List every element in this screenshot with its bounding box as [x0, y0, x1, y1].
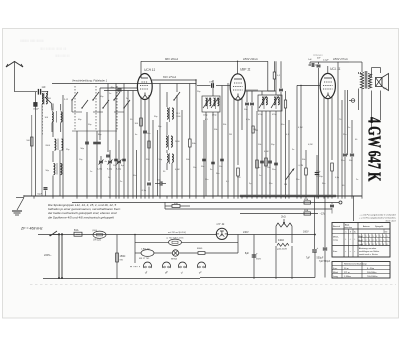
wire strip right connections: [276, 235, 292, 280]
switch mains: [49, 231, 57, 236]
svg-text:1nF: 1nF: [42, 86, 47, 89]
wire top rail 60V: [141, 61, 238, 62]
svg-text:150Ω: 150Ω: [120, 255, 126, 258]
wire top rail 180V: [238, 60, 268, 62]
svg-text:UBF 11: UBF 11: [240, 68, 251, 72]
svg-text:Spiegelfr.: Spiegelfr.: [375, 225, 384, 228]
wire switch bank link: [72, 112, 124, 131]
wire after antenna cap: [42, 91, 49, 92]
resistor 4400 strip: [277, 240, 289, 251]
wire x345 x352: [345, 90, 352, 196]
svg-text:30k: 30k: [223, 124, 226, 126]
svg-text:5n: 5n: [108, 177, 110, 179]
wire x53 to chassis: [45, 191, 47, 197]
svg-text:10n: 10n: [267, 167, 270, 169]
svg-text:Kurz: Kurz: [333, 267, 337, 270]
svg-text:zurück nach u. Rasten: zurück nach u. Rasten: [358, 253, 378, 256]
svg-text:MF 17 741: MF 17 741: [139, 258, 150, 260]
coil L2 pair: [45, 111, 62, 123]
svg-text:µ(40-52)W: µ(40-52)W: [277, 249, 287, 251]
wire vertical x63: [62, 95, 64, 196]
svg-text:8: 8: [369, 244, 370, 246]
svg-text:8: 8: [373, 244, 374, 246]
svg-text:1nF: 1nF: [308, 59, 312, 61]
wire vertical x108: [107, 84, 109, 153]
svg-text:50n: 50n: [296, 179, 299, 181]
capacitor 50nF pair: [244, 103, 254, 111]
svg-text:180V 20mA: 180V 20mA: [243, 57, 258, 61]
wire x289: [288, 120, 290, 196]
svg-text:50k: 50k: [186, 159, 189, 161]
svg-text:10n: 10n: [281, 124, 284, 126]
svg-text:2n: 2n: [126, 98, 128, 100]
capacitor x276 lower: [272, 163, 278, 171]
switch linkage dashed 2: [95, 86, 97, 131]
capacitor x262 lower: [258, 161, 264, 169]
svg-text:2: 2: [373, 240, 374, 242]
title 4 GW 647 K: [364, 117, 384, 182]
wire UBF right side: [245, 90, 275, 92]
wire strip top rail: [38, 234, 316, 236]
scatter labels group D: [205, 173, 358, 187]
svg-text:160µF: 160µF: [33, 108, 40, 110]
svg-text:50n: 50n: [277, 95, 280, 97]
svg-text:5: 5: [362, 236, 363, 238]
wire strip verticals misc: [134, 253, 136, 263]
resistor column x257: [256, 160, 259, 168]
svg-text:llllllllll llllll llllllll: llllllllll llllll llllllll: [20, 38, 44, 43]
node chassis left end: [16, 195, 25, 197]
label 180V 20mA: [243, 57, 258, 61]
wire vertical x160: [159, 84, 161, 197]
svg-text:llllllll llllll llll: llllllll llllll llll: [55, 54, 70, 58]
resistor 40ohm right of notes: [165, 203, 190, 208]
wire transformer leads down: [359, 89, 381, 197]
switch contact S6: [123, 100, 130, 109]
wire chassis bus: [24, 195, 362, 197]
wire x306: [305, 150, 307, 196]
earth ground: [12, 198, 24, 216]
tube UCH 11: [137, 74, 152, 100]
svg-text:Antenn.: Antenn.: [363, 225, 371, 228]
fuse B1A: [74, 229, 82, 236]
svg-text:5: 5: [366, 236, 367, 238]
svg-text:8: 8: [387, 244, 388, 246]
capacitor 1nF antenna: [38, 86, 46, 95]
svg-text:8: 8: [380, 244, 381, 246]
switch contact S1: [71, 92, 78, 112]
svg-text:2n: 2n: [120, 181, 122, 183]
capacitor 50pF b: [93, 142, 101, 143]
wire vertical x196-228: [196, 80, 228, 196]
svg-text:B1A: B1A: [74, 229, 79, 232]
svg-text:UY 11: UY 11: [217, 222, 225, 226]
svg-text:6 - 50m: 6 - 50m: [367, 268, 374, 270]
svg-text:25n: 25n: [343, 134, 346, 136]
socket 4: [198, 262, 206, 275]
svg-text:+ = mit Fassungskontakt 2 verb: + = mit Fassungskontakt 2 verbunden,: [359, 217, 397, 220]
capacitor row mid 4nF: [105, 155, 126, 167]
wire x274 stub: [273, 61, 275, 91]
resistor column x266: [265, 158, 268, 166]
speaker LS: [376, 74, 389, 91]
svg-text:UCH 11: UCH 11: [144, 68, 155, 72]
coil L3 pair: [45, 139, 63, 151]
svg-text:50n: 50n: [216, 173, 219, 175]
faint header smudge: [20, 38, 70, 58]
wire right column x358: [358, 72, 360, 74]
svg-text:B2A: B2A: [304, 209, 309, 212]
svg-text:20n: 20n: [272, 169, 275, 171]
svg-text:0,7M: 0,7M: [298, 127, 303, 129]
svg-text:0,5M: 0,5M: [264, 151, 269, 153]
svg-text:160V: 160V: [303, 231, 309, 234]
svg-text:1n: 1n: [348, 127, 350, 129]
coil L7 oscillator: [159, 153, 174, 164]
wire x325 column: [319, 196, 331, 278]
wire UBF extra link: [245, 89, 258, 91]
wire UCL grid line: [297, 85, 320, 196]
switch contact S4: [102, 100, 109, 109]
switch contact osc1: [173, 84, 180, 101]
svg-text:UR 110: UR 110: [93, 239, 102, 242]
svg-text:ca 700 mA (5-15V): ca 700 mA (5-15V): [166, 237, 184, 240]
wire UCL bottom leads: [324, 97, 332, 197]
wire UCH grid left: [100, 88, 138, 91]
svg-text:5: 5: [369, 236, 370, 238]
resistor R osc: [189, 139, 197, 147]
svg-text:0,3M: 0,3M: [175, 169, 180, 171]
label 60V 20mA: [165, 57, 178, 61]
svg-text:+: +: [319, 169, 321, 173]
wire heater bus A: [72, 202, 339, 204]
svg-text:2: 2: [383, 240, 384, 242]
wire lamp row: [135, 242, 238, 253]
wire pot to rails: [276, 230, 292, 235]
svg-text:10n: 10n: [193, 167, 196, 169]
svg-text:50n: 50n: [147, 133, 150, 135]
svg-text:Bereich: Bereich: [333, 225, 341, 228]
switch contact S2: [81, 100, 88, 109]
label UY 11: [217, 222, 225, 226]
capacitor x270: [267, 161, 272, 169]
tube UBF 11: [230, 74, 245, 100]
wire speaker hook: [372, 68, 381, 78]
trimmer capacitor row: [97, 160, 122, 171]
svg-text:271 m: 271 m: [344, 272, 350, 274]
svg-text:50 m: 50 m: [344, 268, 349, 270]
wire x117 drop: [116, 235, 118, 280]
resistor x306: [299, 165, 308, 175]
svg-text:5: 5: [387, 236, 388, 238]
svg-text:1,35km: 1,35km: [344, 276, 351, 278]
wire vertical x116: [115, 84, 117, 197]
svg-text:2M: 2M: [229, 134, 232, 136]
wire vertical x87: [86, 112, 88, 196]
svg-text:5-25p: 5-25p: [97, 169, 103, 171]
svg-text:550µF: 550µF: [317, 257, 324, 260]
barretter U104: [166, 237, 184, 246]
svg-text:2: 2: [387, 240, 388, 242]
svg-text:220V~: 220V~: [44, 253, 52, 257]
capacitor 0.1uF cathode: [142, 183, 151, 192]
label -12V: [320, 213, 326, 216]
svg-text:880Ω: 880Ω: [197, 248, 203, 250]
switch contact S3: [92, 92, 99, 101]
svg-text:2 A/0,1Ω: 2 A/0,1Ω: [141, 248, 150, 251]
svg-text:5n: 5n: [292, 149, 294, 151]
scatter labels group B: [246, 119, 358, 161]
svg-text:~12V: ~12V: [320, 213, 326, 216]
svg-text:5: 5: [376, 236, 377, 238]
wire top front-end rail: [52, 83, 138, 85]
wire osc verticals: [167, 92, 172, 196]
svg-text:UCL 11: UCL 11: [330, 67, 341, 71]
coil L6 oscillator: [166, 135, 180, 150]
resistor 150ohm strip: [116, 253, 126, 262]
resistor under UBF: [237, 168, 240, 196]
svg-text:8µF: 8µF: [245, 252, 250, 255]
notes paragraph: [48, 203, 121, 220]
svg-text:llllll llllllllllll llllllll l: llllll llllllllllll llllllll llll: [40, 47, 66, 51]
capacitor 50uF horizontal: [155, 180, 166, 186]
wire x149 tail: [148, 187, 150, 197]
wire stub notes right: [164, 202, 166, 209]
svg-text:240V: 240V: [243, 231, 249, 234]
svg-text:1n: 1n: [109, 93, 111, 95]
wire vertical x190: [189, 84, 191, 197]
svg-text:1n: 1n: [90, 171, 92, 173]
svg-text:50n: 50n: [201, 166, 204, 168]
resistor under UCH x149: [148, 141, 150, 148]
capacitor 48nF grid: [110, 87, 121, 91]
svg-text:700-2000m: 700-2000m: [367, 276, 378, 278]
label 81V 27mA: [163, 75, 176, 79]
wire x353 column: [353, 196, 355, 221]
svg-text:kHz: kHz: [385, 232, 388, 234]
wire vertical x124: [123, 84, 125, 197]
svg-text:Wellenbereiche/Skalenlänge: Wellenbereiche/Skalenlänge: [344, 264, 367, 266]
svg-text:5: 5: [373, 236, 374, 238]
svg-text:Kurz: Kurz: [333, 250, 337, 253]
chassis ground stubs: [34, 196, 362, 199]
svg-text:8: 8: [383, 244, 384, 246]
switch linkage dashed 1: [74, 86, 76, 131]
resistor on left column: [26, 137, 33, 146]
svg-text:10n: 10n: [133, 175, 136, 177]
svg-text:50µF: 50µF: [37, 194, 43, 196]
svg-text:50k: 50k: [214, 129, 217, 131]
svg-text:44ΩΩ: 44ΩΩ: [278, 240, 284, 242]
volume potentiometer: [284, 168, 295, 186]
label 180V 27mA: [333, 57, 348, 61]
wire chassis bus thick part: [240, 195, 336, 197]
capacitor 1nF UCL grid: [308, 59, 321, 196]
capacitor 50nF left: [37, 188, 47, 196]
svg-text:180V 27mA: 180V 27mA: [333, 57, 348, 61]
wire heater bus B: [165, 208, 332, 210]
label 220V: [44, 253, 52, 257]
svg-text:+: +: [256, 252, 258, 256]
wire UCH side right to 81V rail: [152, 79, 197, 80]
wire lamp branch: [134, 234, 238, 253]
svg-text:zwischen: zwischen: [345, 227, 352, 229]
svg-text:8: 8: [362, 244, 363, 246]
wire UBF anode to top rail: [237, 61, 239, 73]
svg-text:30n: 30n: [322, 183, 325, 185]
oval lamp MF17741: [139, 248, 154, 260]
label mit 700: [168, 231, 186, 234]
svg-text:40Ω: 40Ω: [174, 203, 178, 205]
footnote fassungsring: [359, 214, 397, 223]
svg-text:550V: 550V: [256, 259, 262, 261]
svg-text:0,1µ: 0,1µ: [142, 190, 147, 192]
antenna: [6, 62, 23, 68]
table ranges: [332, 262, 390, 279]
svg-text:Verschiebelötung: Fädelader 1: Verschiebelötung: Fädelader 1: [72, 79, 108, 83]
svg-text:7µF: 7µF: [306, 257, 311, 260]
wire UCH cathode down: [141, 95, 149, 196]
wire UBF bottom leads: [234, 97, 242, 196]
wire IF drops: [262, 61, 276, 196]
fold dashed line: [30, 284, 396, 286]
wire x247 x252: [247, 91, 252, 196]
svg-text:4 GW 647 K: 4 GW 647 K: [364, 117, 384, 182]
tube UCL 11: [320, 66, 335, 99]
wire vertical x77: [76, 131, 78, 196]
fuse B2A heater: [304, 198, 311, 204]
svg-text:2: 2: [366, 240, 367, 242]
capacitor 50pF a: [80, 142, 89, 150]
resistor 880ohm: [197, 248, 238, 254]
wire vertical x97: [96, 131, 98, 196]
label 160V strip: [303, 231, 309, 234]
capacitor pair 50nF right: [341, 154, 354, 162]
capacitor connector x339: [330, 203, 334, 214]
svg-text:nachklingen von Rahlen: nachklingen von Rahlen: [359, 251, 379, 253]
scatter labels group C: [64, 99, 166, 183]
wire IF T0 drops: [206, 80, 222, 196]
coil L4 pair: [45, 163, 61, 175]
wire transformer top hook: [349, 62, 362, 72]
svg-text:2: 2: [380, 240, 381, 242]
svg-text:7µF 550µF: 7µF 550µF: [319, 261, 331, 263]
svg-text:8: 8: [366, 244, 367, 246]
wire trimmer drops: [101, 140, 119, 196]
label Verschiebelötung Fädelader: [72, 79, 108, 83]
wire UCH anode to top rail: [140, 61, 142, 74]
dash-dot line left of sockets: [130, 266, 140, 268]
faint mark top right: [313, 53, 323, 57]
wire osc rail: [138, 83, 196, 85]
electrolytic 50uF: [315, 169, 324, 178]
svg-text:mit 700 auf (5-15V): mit 700 auf (5-15V): [168, 231, 186, 234]
switch linkage input dashed: [41, 94, 43, 135]
resistor UCL cathode: [331, 163, 334, 196]
resistor x285: [284, 91, 286, 196]
svg-text:2n: 2n: [356, 179, 358, 181]
switch contact S5: [113, 92, 120, 101]
barretter UR110: [92, 230, 106, 242]
svg-text:200-580m: 200-580m: [367, 272, 377, 274]
socket 3: [179, 262, 187, 275]
svg-text:1nF: 1nF: [209, 82, 213, 84]
capacitor 50nF UCL left: [277, 61, 283, 196]
socket 2: [162, 262, 170, 275]
svg-text:3n: 3n: [210, 169, 212, 171]
svg-text:8: 8: [376, 244, 377, 246]
electrolytic 8uF: [245, 235, 262, 280]
resistor 0.1 x274: [273, 72, 281, 79]
connector ring symbol: [349, 99, 355, 103]
wire strip bottom rail: [43, 253, 315, 279]
svg-text:50n: 50n: [341, 160, 344, 162]
svg-text:81V 27mA: 81V 27mA: [163, 75, 176, 79]
wire input coil connections: [52, 104, 61, 133]
lamp BESA: [171, 250, 179, 260]
resistor under UCH x141: [135, 118, 143, 126]
wire left column: [31, 115, 33, 196]
wire vertical x128-133: [128, 91, 133, 197]
scatter labels group A: [100, 91, 232, 171]
wire UBF grid left cap: [197, 83, 230, 88]
svg-text:25n: 25n: [205, 179, 208, 181]
label 240V: [243, 231, 249, 234]
svg-text:1M: 1M: [253, 129, 256, 131]
wire vertical x53: [52, 104, 54, 197]
mains plug: [53, 233, 63, 279]
wire top rail 180V 27mA: [310, 62, 349, 66]
resistor x253 mid: [252, 126, 258, 133]
svg-text:2: 2: [362, 240, 363, 242]
output transformer Tr: [360, 71, 371, 89]
svg-text:10n: 10n: [219, 166, 222, 168]
wire x347 title side: [347, 90, 349, 155]
svg-text:+: +: [317, 246, 319, 250]
svg-text:0,2M: 0,2M: [308, 144, 313, 146]
label ZF 468kHz: [20, 227, 43, 231]
svg-text:5µF: 5µF: [383, 88, 387, 90]
wire x317: [316, 155, 318, 196]
label 550uF: [317, 257, 324, 260]
svg-text:Ullstein: Ullstein: [313, 53, 323, 57]
IF box arrows: [259, 96, 279, 108]
electrolytic 7uF: [306, 246, 319, 260]
svg-text:(100): (100): [92, 230, 97, 232]
antenna coil upper pair: [42, 93, 52, 196]
svg-text:2: 2: [376, 240, 377, 242]
label 4W 01uF: [317, 58, 329, 62]
label 2uF: [383, 88, 387, 90]
svg-text:+ = mit Fassungskontakt 1 verb: + = mit Fassungskontakt 1 verbunden: [359, 214, 396, 217]
capacitor row under osc: [201, 159, 224, 171]
svg-text:BESA: BESA: [171, 257, 177, 260]
svg-text:30k: 30k: [302, 159, 305, 161]
connector heater A end: [339, 201, 342, 204]
label 50pF: [209, 82, 213, 84]
wire antenna lead: [15, 62, 38, 92]
wire verticals UBF lower: [257, 111, 270, 196]
label UCL 11: [330, 67, 341, 71]
svg-text:5: 5: [383, 236, 384, 238]
wire vertical x204: [203, 120, 205, 196]
switch contact input: [45, 92, 52, 104]
socket NF: [144, 262, 152, 275]
wire x338 x342: [338, 62, 342, 196]
svg-text:60V 20mA: 60V 20mA: [165, 57, 178, 61]
wire extra verticals mid: [60, 95, 182, 196]
svg-text:20n: 20n: [269, 183, 272, 185]
